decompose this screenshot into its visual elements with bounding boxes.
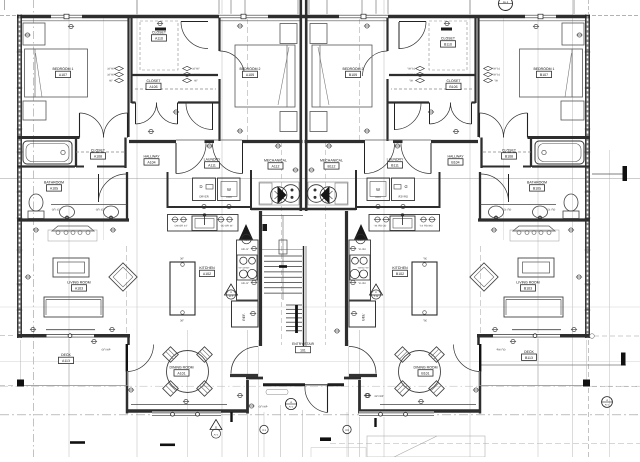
right dimension bars <box>592 173 626 175</box>
detail circle 4/A7.2 <box>285 398 296 409</box>
svg-text:CLOSET: CLOSET <box>441 37 456 41</box>
keynote triangle bottom <box>210 420 222 430</box>
svg-text:B102: B102 <box>396 272 404 276</box>
svg-text:B107: B107 <box>540 73 548 77</box>
svg-text:BEDROOM 1: BEDROOM 1 <box>52 67 73 71</box>
svg-text:B108: B108 <box>505 155 513 159</box>
svg-text:A102: A102 <box>203 272 211 276</box>
svg-text:CLOSET: CLOSET <box>502 149 517 153</box>
window: dining A <box>152 412 221 417</box>
svg-text:BEDROOM 1: BEDROOM 1 <box>533 67 554 71</box>
svg-text:B105: B105 <box>533 187 541 191</box>
svg-text:BEDROOM 2: BEDROOM 2 <box>239 67 260 71</box>
svg-text:B109: B109 <box>349 73 357 77</box>
svg-text:B113: B113 <box>525 356 533 360</box>
grid lines <box>136 0 138 457</box>
svg-text:DINING ROOM: DINING ROOM <box>169 366 193 370</box>
svg-text:A106: A106 <box>149 85 157 89</box>
svg-text:CLOSET: CLOSET <box>446 79 461 83</box>
svg-text:MECHANICAL: MECHANICAL <box>320 159 343 163</box>
svg-text:A108: A108 <box>94 155 102 159</box>
svg-text:A105: A105 <box>50 187 58 191</box>
svg-text:A111: A111 <box>208 164 216 168</box>
svg-text:A101: A101 <box>177 372 185 376</box>
svg-text:KITCHEN: KITCHEN <box>392 266 408 270</box>
svg-text:A7.2: A7.2 <box>214 434 219 437</box>
front door wall <box>263 383 305 386</box>
svg-text:DECK: DECK <box>524 350 534 354</box>
svg-text:HALLWAY: HALLWAY <box>447 155 464 159</box>
svg-text:B112: B112 <box>328 165 336 169</box>
svg-text:A112: A112 <box>272 165 280 169</box>
svg-text:CLOSET: CLOSET <box>152 31 167 35</box>
svg-text:B104: B104 <box>451 161 459 165</box>
svg-text:LIVING ROOM: LIVING ROOM <box>516 281 539 285</box>
svg-text:GFI WP: GFI WP <box>375 395 384 398</box>
svg-text:CLOSET: CLOSET <box>146 79 161 83</box>
entry stair treads <box>264 255 302 257</box>
svg-text:BATHROOM: BATHROOM <box>527 181 547 185</box>
bottom dark dashes <box>70 441 85 444</box>
svg-text:3.9: 3.9 <box>345 429 349 432</box>
window: living A <box>47 333 95 338</box>
window: living B <box>493 333 560 338</box>
svg-text:101: 101 <box>300 348 306 352</box>
svg-text:A107: A107 <box>59 73 67 77</box>
svg-text:A109: A109 <box>246 73 254 77</box>
window: dining B <box>359 412 434 417</box>
svg-text:LAUNDRY: LAUNDRY <box>204 158 221 162</box>
svg-text:LAUNDRY: LAUNDRY <box>387 158 404 162</box>
svg-text:BEDROOM 2: BEDROOM 2 <box>342 67 363 71</box>
svg-text:BATHROOM: BATHROOM <box>44 181 64 185</box>
svg-text:DECK: DECK <box>61 353 71 357</box>
svg-text:MECHANICAL: MECHANICAL <box>264 159 287 163</box>
detail circle right 4/A7.1 <box>602 397 613 408</box>
top dimension ticks <box>136 0 138 14</box>
svg-text:A104: A104 <box>147 161 155 165</box>
svg-text:3.1: 3.1 <box>262 429 266 432</box>
svg-text:A7.2: A7.2 <box>289 405 294 408</box>
bottom construction rects <box>311 447 366 449</box>
svg-text:B110: B110 <box>444 43 452 47</box>
svg-text:KITCHEN: KITCHEN <box>199 266 215 270</box>
svg-text:DINING ROOM: DINING ROOM <box>413 366 437 370</box>
svg-text:B103: B103 <box>524 287 532 291</box>
svg-text:LIVING ROOM: LIVING ROOM <box>67 281 90 285</box>
svg-text:A7.1: A7.1 <box>605 403 610 406</box>
grid bubbles bottom <box>260 425 268 433</box>
svg-text:ENTRY STAIR: ENTRY STAIR <box>292 342 315 346</box>
svg-text:A103: A103 <box>75 287 83 291</box>
svg-text:GFI WP: GFI WP <box>259 406 268 409</box>
svg-text:B111: B111 <box>391 164 399 168</box>
title circle top <box>499 0 513 11</box>
svg-text:B106: B106 <box>449 85 457 89</box>
svg-text:A110: A110 <box>155 37 163 41</box>
svg-text:B101: B101 <box>421 372 429 376</box>
svg-text:HALLWAY: HALLWAY <box>143 155 160 159</box>
svg-text:A113: A113 <box>62 359 70 363</box>
svg-text:CLOSET: CLOSET <box>91 149 106 153</box>
